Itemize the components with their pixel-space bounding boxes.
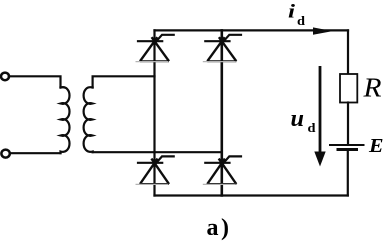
- arrow ud (voltage direction): [314, 66, 325, 167]
- svg-text:a): a): [207, 215, 232, 241]
- battery E short plate: [338, 148, 357, 151]
- wire load right side top: [347, 30, 349, 74]
- wire bridge left leg: [153, 30, 155, 195]
- wire bridge top rail: [155, 29, 349, 31]
- svg-text:E: E: [368, 136, 384, 157]
- transformer primary winding L1: [61, 87, 70, 153]
- terminal T1 (top input): [1, 73, 9, 81]
- thyristor VT1 (top-left): [136, 35, 175, 62]
- svg-text:u: u: [291, 106, 305, 132]
- svg-text:i: i: [288, 2, 296, 23]
- thyristor VT2 (top-right): [203, 35, 242, 62]
- wire resistor to battery: [347, 103, 349, 145]
- wire bridge right leg: [221, 30, 224, 195]
- wire secondary bottom to bridge right leg: [93, 151, 222, 153]
- wire primary bottom to terminal: [10, 152, 61, 154]
- arrow id (current direction): [313, 27, 333, 34]
- wire bridge bottom rail: [155, 194, 348, 196]
- terminal T2 (bottom input): [1, 150, 9, 158]
- transformer secondary winding L2: [84, 87, 93, 152]
- thyristor VT4 (bottom-right): [203, 156, 242, 184]
- thyristor VT3 (bottom-left): [136, 156, 175, 184]
- resistor R body: [340, 74, 357, 103]
- svg-text:R: R: [362, 73, 382, 103]
- svg-text:d: d: [308, 120, 317, 135]
- svg-text:d: d: [297, 13, 306, 28]
- wire battery to bottom rail: [347, 151, 349, 196]
- wire secondary top to bridge left leg: [93, 76, 155, 87]
- wire top input to primary: [9, 76, 61, 87]
- battery E long plate: [330, 144, 364, 146]
